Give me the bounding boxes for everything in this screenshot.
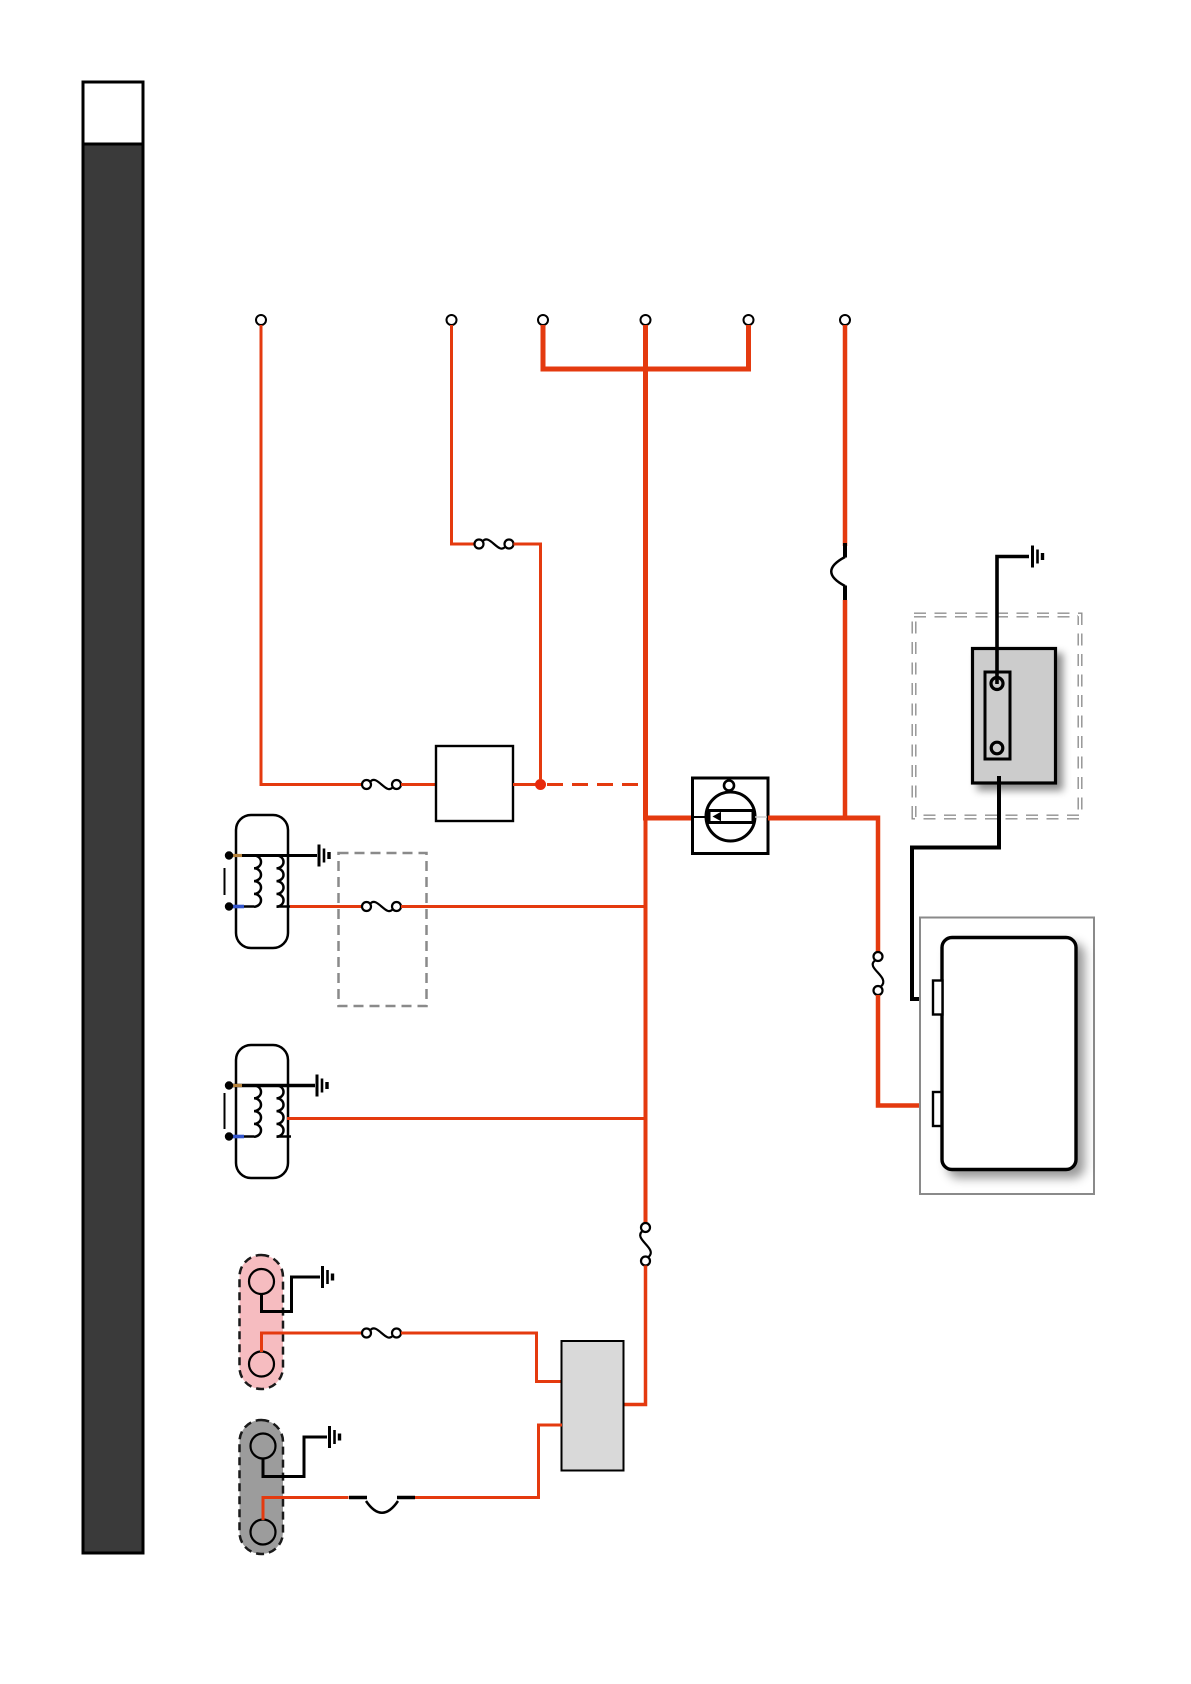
ignition switch S1	[693, 778, 769, 854]
wire terminal1 to fuse F1	[261, 325, 362, 785]
horn H1	[973, 649, 1056, 784]
inline connector hop vertical	[831, 543, 845, 602]
wire terminal4 main feed	[643, 325, 648, 821]
horn enclosure dashed box	[914, 615, 1080, 817]
regulator box	[562, 1341, 624, 1471]
wire lamp L2 to ground	[263, 1437, 327, 1477]
battery terminal upper	[933, 981, 943, 1015]
wire relay box to junction	[513, 783, 537, 786]
coil T1 primary stub blue	[231, 905, 244, 909]
connector terminal 5	[744, 315, 754, 325]
ignition coil T1	[225, 815, 318, 948]
wire lamp L2 to hop	[263, 1498, 349, 1521]
wire fuse F3 to main feed	[401, 905, 644, 908]
wire fuse F2 down to junction	[514, 544, 541, 780]
wire hop to regulator box	[415, 1425, 562, 1498]
connector terminal 3	[538, 315, 548, 325]
horn mounting slot	[985, 672, 1010, 759]
connector terminal 1	[256, 315, 266, 325]
ignition coil T2	[225, 1045, 316, 1178]
wire coil T1 output to fuse F3	[290, 905, 362, 908]
inline connector hop horizontal	[349, 1498, 415, 1513]
wire horn to battery negative	[912, 776, 999, 999]
fuse F4	[362, 1328, 401, 1337]
fuse F5 vertical	[640, 1223, 651, 1266]
wire terminal2 to fuse F2	[452, 325, 475, 544]
wire horn to ground	[997, 557, 1029, 685]
wire switch output to battery drop	[768, 816, 878, 821]
wire feed into ignition switch	[643, 816, 693, 821]
wire lamp L1 to ground	[262, 1277, 321, 1312]
ground G2	[317, 1075, 327, 1097]
horn pin bottom	[991, 742, 1003, 754]
coil T2 terminal dot bottom	[225, 1132, 233, 1140]
fuse F6 vertical	[873, 952, 884, 995]
wire terminal5 drop	[746, 325, 751, 367]
dashed wire junction to main bus	[547, 783, 643, 786]
coil T1 primary stub orange	[231, 854, 242, 857]
wire fuse F4 to regulator box	[401, 1333, 562, 1382]
fuse F1	[362, 780, 401, 789]
coil T1 terminal dot top	[225, 851, 233, 859]
wire fuse F6 to battery positive terminal	[878, 995, 935, 1106]
coil T2 terminal dot top	[225, 1081, 233, 1089]
ground G4	[330, 1426, 340, 1448]
wire hop to switch node	[843, 600, 848, 820]
coil T2 primary stub blue	[231, 1135, 244, 1139]
coil T2 primary stub orange	[231, 1084, 242, 1087]
fuse F2	[475, 539, 514, 548]
connector terminal 4	[641, 315, 651, 325]
battery B1	[942, 938, 1076, 1170]
connector terminal 6	[840, 315, 850, 325]
relay box	[436, 746, 513, 821]
ground G5	[1033, 546, 1043, 568]
fuse F3	[362, 902, 401, 911]
connector terminal 2	[447, 315, 457, 325]
coil T1 terminal dot bottom	[225, 902, 233, 910]
dashed box around fuse F3	[339, 853, 427, 1006]
ground G3	[323, 1266, 333, 1288]
wire lamp L1 to fuse F4	[262, 1333, 363, 1352]
tail lamp pair L2 gray pod	[240, 1420, 284, 1554]
wire fuse F1 to relay box	[401, 783, 436, 786]
sidebar dark band	[83, 82, 143, 1553]
battery terminal lower	[933, 1092, 942, 1126]
junction node	[535, 779, 546, 790]
turn lamp pair L1 pink pod	[240, 1255, 284, 1389]
wire main feed lower run	[644, 818, 648, 1224]
wire battery drop upper	[876, 816, 881, 953]
wire terminal3 drop	[541, 325, 546, 367]
ground G1	[319, 845, 329, 867]
wire terminal6 drop	[843, 325, 848, 546]
wire fuse F5 to regulator box	[624, 1266, 646, 1405]
wire coil T2 output to main feed	[287, 1117, 644, 1120]
horn pin top	[991, 678, 1003, 690]
wire bus horizontal	[541, 367, 752, 372]
battery outer case	[920, 918, 1094, 1195]
